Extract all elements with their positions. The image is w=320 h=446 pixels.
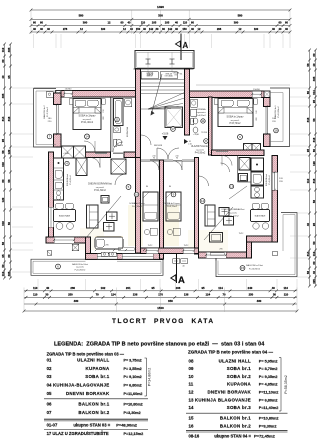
left exterior wall pier upper [54, 93, 62, 105]
radiator boxes on wall [101, 252, 108, 256]
right upper-step bottom wall [247, 236, 278, 242]
svg-text:60: 60 [279, 21, 282, 25]
svg-text:142: 142 [149, 27, 154, 31]
svg-text:P=4,85m2: P=4,85m2 [196, 115, 206, 117]
svg-text:268: 268 [217, 27, 222, 31]
room B chair [167, 229, 172, 234]
svg-text:ULAZNI HALL: ULAZNI HALL [219, 358, 251, 363]
terrace outline above right [196, 84, 290, 86]
corner diagonal [229, 186, 247, 199]
svg-text:10: 10 [189, 374, 194, 379]
room A door arc [150, 161, 159, 170]
witness lines left [12, 87, 33, 89]
svg-text:P=8,70m2: P=8,70m2 [167, 206, 178, 208]
rooms AB bottom wall [141, 248, 199, 254]
svg-text:60: 60 [1, 59, 5, 63]
svg-text:P=6,80m2: P=6,80m2 [70, 175, 72, 185]
svg-text:40: 40 [128, 21, 131, 25]
svg-text:110: 110 [33, 286, 38, 290]
svg-text:OPREMA: OPREMA [196, 108, 206, 111]
svg-text:P=8,70m2: P=8,70m2 [230, 122, 242, 125]
svg-text:480: 480 [257, 299, 262, 303]
top wall window left [64, 91, 72, 98]
section marker A bottom [176, 252, 178, 283]
svg-text:P=11,10m2: P=11,10m2 [259, 391, 279, 395]
room B top wall [164, 159, 174, 161]
svg-text:P= 5,95m2: P= 5,95m2 [259, 359, 278, 363]
svg-text:09: 09 [189, 366, 194, 371]
svg-text:P=3,30m2: P=3,30m2 [259, 424, 277, 428]
svg-text:DNEVNI BORAVAK: DNEVNI BORAVAK [66, 391, 110, 396]
dimension chain right outer [315, 50, 317, 286]
svg-text:105: 105 [152, 21, 157, 25]
svg-text:240: 240 [248, 286, 253, 290]
svg-text:190: 190 [101, 27, 106, 31]
dimension chain bottom row2 [24, 296, 297, 298]
svg-text:110: 110 [33, 293, 38, 297]
svg-text:318: 318 [312, 178, 316, 183]
svg-text:13: 13 [189, 397, 194, 402]
svg-text:KUPAONA: KUPAONA [86, 366, 111, 371]
svg-text:95: 95 [312, 100, 316, 104]
left hall closet lines [125, 159, 127, 174]
svg-text:136: 136 [133, 293, 138, 297]
room B bed [166, 192, 181, 221]
svg-text:30: 30 [273, 293, 277, 297]
svg-text:za površ.: za površ. [96, 186, 105, 189]
svg-text:75/12: 75/12 [239, 233, 244, 235]
left lower exterior wall [49, 152, 54, 243]
stair treads [141, 80, 185, 110]
svg-text:+3,06: +3,06 [162, 132, 169, 136]
svg-text:405: 405 [7, 271, 11, 276]
svg-text:314: 314 [1, 116, 5, 121]
svg-text:250: 250 [68, 293, 73, 297]
svg-text:12: 12 [189, 390, 194, 395]
svg-text:40: 40 [46, 286, 50, 290]
svg-text:110: 110 [1, 47, 5, 52]
svg-text:SIL: SIL [180, 74, 183, 76]
svg-text:ZGRADA TIP B neto površine sta: ZGRADA TIP B neto površine stan 03 — [47, 351, 125, 356]
svg-text:P=58,35m2: P=58,35m2 [284, 375, 288, 393]
svg-text:1500: 1500 [157, 306, 164, 310]
svg-text:318: 318 [306, 117, 310, 122]
left corner pier [56, 91, 62, 98]
door arc left hall-living [115, 174, 126, 185]
svg-text:P= 9,10m2: P= 9,10m2 [124, 375, 142, 379]
svg-text:480: 480 [74, 299, 79, 303]
dimension chain left outer [4, 44, 6, 278]
svg-text:P=72,45m2: P=72,45m2 [254, 433, 276, 438]
left living bottom wall [86, 254, 164, 260]
svg-text:17 ULAZ U ZGRADU/STUBIŠTE: 17 ULAZ U ZGRADU/STUBIŠTE [47, 431, 109, 436]
left dining bottom wall [46, 237, 88, 243]
svg-text:120: 120 [312, 161, 316, 166]
svg-text:95: 95 [312, 223, 316, 227]
svg-text:56: 56 [1, 242, 5, 246]
svg-text:278: 278 [63, 27, 68, 31]
svg-text:114: 114 [218, 286, 223, 290]
hall/bath wall right of stair [209, 97, 213, 155]
svg-text:124: 124 [206, 293, 211, 297]
svg-text:BALKON br.1: BALKON br.1 [220, 415, 251, 420]
svg-text:13: 13 [230, 185, 234, 189]
entry label boxes [141, 72, 158, 79]
stairwell left wall [136, 69, 141, 158]
window sill boxes under rooms AB [173, 259, 180, 264]
svg-text:ULAZNI HALL: ULAZNI HALL [77, 357, 109, 362]
wardrobe X boxes right [244, 144, 253, 153]
living right: tv box [210, 233, 223, 243]
svg-text:08: 08 [189, 358, 194, 363]
room A chair [144, 229, 149, 234]
witness lines bottom [37, 279, 39, 291]
radiator marks left living [118, 248, 134, 251]
party wall room B right [195, 158, 199, 255]
svg-text:50: 50 [312, 241, 316, 245]
svg-text:56: 56 [306, 271, 310, 275]
svg-text:07: 07 [47, 410, 52, 415]
svg-text:260: 260 [70, 286, 75, 290]
elevator shaft [165, 107, 183, 128]
sink left bath [114, 127, 121, 133]
svg-text:80: 80 [169, 186, 171, 188]
svg-text:04: 04 [47, 383, 52, 388]
dining chairs right [252, 204, 260, 210]
washer right bath [191, 99, 198, 107]
svg-text:P=48,90m2: P=48,90m2 [116, 423, 138, 428]
top wall window right [252, 91, 261, 98]
porch column left [146, 59, 151, 64]
svg-text:01-07: 01-07 [47, 423, 58, 428]
svg-text:12: 12 [201, 199, 205, 203]
svg-text:DNEVNI BORAVAK/kat: DNEVNI BORAVAK/kat [222, 208, 245, 211]
svg-text:P=6,80m2: P=6,80m2 [269, 175, 271, 185]
section marker A top [180, 34, 182, 61]
svg-text:40: 40 [306, 223, 310, 227]
wc left bath [114, 139, 117, 146]
left bottom balcony [31, 259, 163, 275]
left drain box [47, 251, 52, 256]
svg-text:95: 95 [1, 254, 5, 258]
pillar X box under dining [72, 244, 79, 251]
left apartment top wall [61, 91, 136, 98]
svg-text:70: 70 [222, 293, 226, 297]
svg-text:80: 80 [306, 91, 310, 95]
svg-text:SMEĆE: SMEĆE [147, 74, 154, 77]
svg-text:01: 01 [47, 357, 52, 362]
room A bed [143, 192, 158, 221]
svg-text:95: 95 [201, 286, 205, 290]
svg-text:80: 80 [1, 179, 5, 183]
right living bottom wall [199, 252, 252, 258]
armchair 2 [104, 223, 115, 232]
living room left tint [95, 236, 123, 249]
window tick marks [63, 93, 65, 95]
legend left table [47, 351, 143, 415]
pantry X box [76, 158, 87, 176]
svg-text:405: 405 [7, 47, 11, 52]
svg-text:60: 60 [7, 254, 11, 258]
highlight tint room A [128, 205, 143, 246]
svg-text:80: 80 [312, 149, 316, 153]
bidet right bath [193, 127, 198, 133]
left bedroom nightstands [69, 99, 73, 105]
door arc bath [113, 142, 123, 152]
svg-text:120: 120 [7, 149, 11, 154]
svg-text:A: A [178, 275, 185, 286]
right bedroom bed [218, 99, 253, 127]
svg-text:110: 110 [141, 21, 146, 25]
svg-text:75/12: 75/12 [148, 245, 153, 247]
svg-text:P=12,15m2: P=12,15m2 [124, 432, 144, 436]
porch column guide lines [147, 52, 149, 79]
svg-text:40: 40 [312, 63, 316, 67]
living right: diagonal [204, 207, 233, 240]
left exterior wall pier lower [54, 134, 62, 147]
svg-text:580: 580 [238, 13, 243, 17]
entry hall door arcs [157, 148, 168, 159]
svg-text:P=10,80m2: P=10,80m2 [259, 416, 279, 420]
dimension chain top total [31, 9, 290, 11]
svg-text:BLAGOVAJE: BLAGOVAJE [255, 215, 266, 218]
svg-text:60: 60 [312, 53, 316, 57]
right lower exterior wall [272, 156, 278, 243]
svg-text:50: 50 [7, 222, 11, 226]
svg-text:150: 150 [136, 27, 141, 31]
svg-text:170: 170 [158, 293, 163, 297]
svg-text:405: 405 [1, 93, 5, 98]
svg-text:56: 56 [312, 200, 316, 204]
dining chairs left [56, 204, 64, 210]
door arc left kitchen [90, 158, 100, 168]
svg-text:60: 60 [285, 21, 288, 25]
kitchen right: counter [251, 172, 264, 185]
svg-text:P= 6,80m2: P= 6,80m2 [124, 384, 142, 388]
svg-text:DNEVNI BORAVAK/kat: DNEVNI BORAVAK/kat [88, 183, 112, 186]
svg-text:102: 102 [101, 286, 106, 290]
svg-text:16: 16 [189, 423, 194, 428]
svg-text:10: 10 [135, 193, 139, 197]
legend right table [188, 350, 279, 429]
svg-text:136: 136 [184, 293, 189, 297]
witness lines top [33, 34, 35, 48]
svg-text:KUHINJA BLAGOVANJE: KUHINJA BLAGOVANJE [195, 397, 251, 402]
svg-text:318: 318 [7, 116, 11, 121]
svg-text:60: 60 [40, 21, 43, 25]
svg-text:250: 250 [249, 293, 254, 297]
svg-text:11: 11 [115, 118, 118, 122]
svg-text:LEGENDA: ZGRADA TIP B neto po: LEGENDA: ZGRADA TIP B neto površine stan… [54, 342, 265, 348]
svg-text:03: 03 [47, 374, 52, 379]
svg-text:150: 150 [182, 27, 187, 31]
kitchen right: burners [255, 187, 260, 192]
svg-text:SOBA br.2: SOBA br.2 [227, 374, 252, 379]
right balcony (BALKON br.1) [270, 88, 290, 147]
svg-text:70: 70 [96, 293, 100, 297]
svg-text:318: 318 [1, 162, 5, 167]
svg-text:190: 190 [254, 27, 259, 31]
svg-text:206: 206 [176, 286, 181, 290]
bathtub left bath [114, 99, 124, 126]
svg-text:296: 296 [105, 245, 108, 247]
door arc right bath mid [221, 163, 230, 172]
svg-text:SOBA br.3: SOBA br.3 [227, 405, 252, 410]
legend right rule 1 [186, 412, 288, 414]
svg-text:296: 296 [219, 249, 222, 251]
shelf right bath [191, 109, 197, 116]
step wall [86, 237, 91, 260]
svg-text:40: 40 [1, 75, 5, 79]
svg-text:390: 390 [234, 21, 239, 25]
svg-text:BALKON br.2: BALKON br.2 [78, 410, 109, 415]
svg-text:150/60: 150/60 [65, 89, 72, 91]
svg-text:17: 17 [171, 127, 175, 131]
outline above left top wall [34, 87, 136, 89]
svg-text:KUHINJA/kuh: KUHINJA/kuh [66, 174, 69, 186]
svg-text:14: 14 [85, 135, 89, 139]
corridor closet X box [111, 159, 126, 174]
svg-text:650: 650 [168, 299, 173, 303]
svg-text:BLAGOVAJE: BLAGOVAJE [59, 215, 71, 218]
balcony corner vent box [46, 92, 53, 98]
svg-text:ZGRADA TIP B neto površine sta: ZGRADA TIP B neto površine stan 04 — [188, 350, 274, 355]
living right: armchair 2 [224, 217, 234, 226]
dimension chain top row2 [31, 18, 290, 20]
left balcony number [47, 134, 52, 139]
right exterior wall pier upper [264, 98, 271, 107]
wall bedroom/bath [110, 97, 112, 152]
svg-text:318: 318 [312, 137, 316, 142]
svg-text:BALKON br.2: BALKON br.2 [220, 423, 251, 428]
screen diagonal [86, 196, 121, 238]
svg-text:330: 330 [158, 13, 163, 17]
right apartment top wall [190, 91, 271, 98]
svg-text:150/60: 150/60 [253, 89, 260, 91]
living room left: media box [101, 196, 109, 204]
svg-text:56: 56 [1, 150, 5, 154]
svg-text:+3,06: +3,06 [63, 153, 69, 155]
kitchen counter left vertical [54, 158, 64, 200]
svg-text:P=10,80m2: P=10,80m2 [75, 269, 87, 271]
svg-text:TLOCRT PRVOG KATA: TLOCRT PRVOG KATA [112, 318, 215, 325]
svg-text:16: 16 [274, 129, 278, 133]
svg-text:ULAZNI HALL/kat: ULAZNI HALL/kat [191, 145, 210, 148]
left balcony (BALKON br.2) [34, 89, 57, 148]
right exterior wall pier lower [264, 134, 271, 147]
svg-text:P=9,35m2: P=9,35m2 [132, 206, 143, 208]
right drain box [273, 251, 278, 256]
svg-text:P=3,30m2: P=3,30m2 [124, 411, 141, 415]
svg-text:KUHINJA/kuh: KUHINJA/kuh [265, 174, 268, 186]
svg-text:SOBA br.2/spav: SOBA br.2/spav [129, 202, 145, 205]
svg-text:110: 110 [284, 293, 289, 297]
svg-text:405: 405 [312, 76, 316, 81]
svg-text:SOBA br.1: SOBA br.1 [85, 374, 110, 379]
svg-text:P=34,80m2: P=34,80m2 [148, 368, 152, 386]
svg-text:P= 6,80m2: P= 6,80m2 [259, 398, 278, 402]
svg-text:ukupno STAN 04 =: ukupno STAN 04 = [214, 433, 251, 438]
svg-text:210: 210 [152, 156, 155, 158]
svg-text:11: 11 [201, 119, 204, 123]
svg-text:110: 110 [312, 251, 316, 256]
svg-text:ukupno STAN 03 =: ukupno STAN 03 = [73, 423, 110, 428]
svg-text:60: 60 [121, 21, 124, 25]
witness lines right [290, 87, 308, 89]
dimension chain bottom row4 [24, 310, 297, 312]
left bedroom bed [73, 99, 101, 130]
svg-text:SOBA br.1/spav: SOBA br.1/spav [227, 116, 245, 119]
svg-text:110: 110 [306, 178, 310, 183]
svg-text:30: 30 [45, 293, 49, 297]
right wall window (balcony door) [265, 107, 267, 135]
svg-text:390: 390 [83, 21, 88, 25]
svg-text:P=11,60m2: P=11,60m2 [124, 392, 143, 396]
svg-text:SOBA br.3/spav: SOBA br.3/spav [79, 115, 97, 118]
svg-text:60: 60 [312, 261, 316, 265]
svg-text:P=11,10m2: P=11,10m2 [227, 216, 239, 218]
svg-text:DNEVNI BORAVAK: DNEVNI BORAVAK [207, 390, 251, 395]
left apartment horizontal wall [86, 152, 111, 158]
svg-text:120: 120 [1, 197, 5, 202]
svg-text:OST: OST [174, 75, 177, 77]
stair direction arrow [152, 74, 162, 112]
svg-text:P=5,95m2: P=5,95m2 [195, 153, 206, 155]
svg-text:210: 210 [175, 156, 178, 158]
svg-text:05: 05 [47, 391, 52, 396]
svg-text:02: 02 [47, 366, 52, 371]
svg-text:90: 90 [176, 158, 178, 160]
svg-text:110: 110 [183, 21, 188, 25]
level marker right [184, 139, 188, 144]
svg-text:15: 15 [189, 415, 194, 420]
dimension chain bottom row1 [24, 290, 297, 292]
svg-text:SOBA br.1/spav: SOBA br.1/spav [164, 202, 180, 205]
svg-text:A: A [183, 41, 189, 50]
dimension chain top row3 [31, 25, 290, 27]
svg-text:75/196: 75/196 [117, 145, 123, 147]
wc right bath [191, 118, 194, 125]
legend left bracket [145, 358, 147, 396]
right corner pier [264, 91, 270, 98]
svg-text:P=11,40m2: P=11,40m2 [259, 406, 279, 410]
svg-text:P= 8,70m2: P= 8,70m2 [259, 367, 278, 371]
svg-text:BALKON br.2: BALKON br.2 [43, 105, 46, 119]
svg-text:KUHINJA-BLAGOVANJE: KUHINJA-BLAGOVANJE [53, 383, 110, 388]
svg-text:110: 110 [1, 271, 5, 276]
svg-text:110: 110 [283, 286, 288, 290]
dimension chain top row4 [31, 31, 290, 33]
svg-text:kupaonice: kupaonice [196, 112, 206, 114]
svg-text:za površ.: za površ. [196, 148, 205, 151]
dimension chain left inner [10, 44, 12, 278]
svg-text:1490: 1490 [157, 5, 164, 9]
stair block top wall [134, 68, 194, 70]
svg-text:56: 56 [306, 63, 310, 67]
svg-text:314: 314 [312, 90, 316, 95]
svg-text:P= 3,55m2: P= 3,55m2 [124, 367, 142, 371]
dimension chain bottom row3 [24, 303, 297, 305]
washer [125, 99, 132, 107]
svg-text:08-16: 08-16 [189, 433, 200, 438]
svg-text:50: 50 [1, 264, 5, 268]
svg-text:KUPAONA: KUPAONA [126, 126, 129, 137]
armchair 1 [107, 212, 118, 221]
door arc right living [199, 176, 209, 186]
legend right bracket [279, 358, 281, 412]
living right: armchair 1 [219, 208, 229, 217]
svg-text:95: 95 [1, 139, 5, 143]
